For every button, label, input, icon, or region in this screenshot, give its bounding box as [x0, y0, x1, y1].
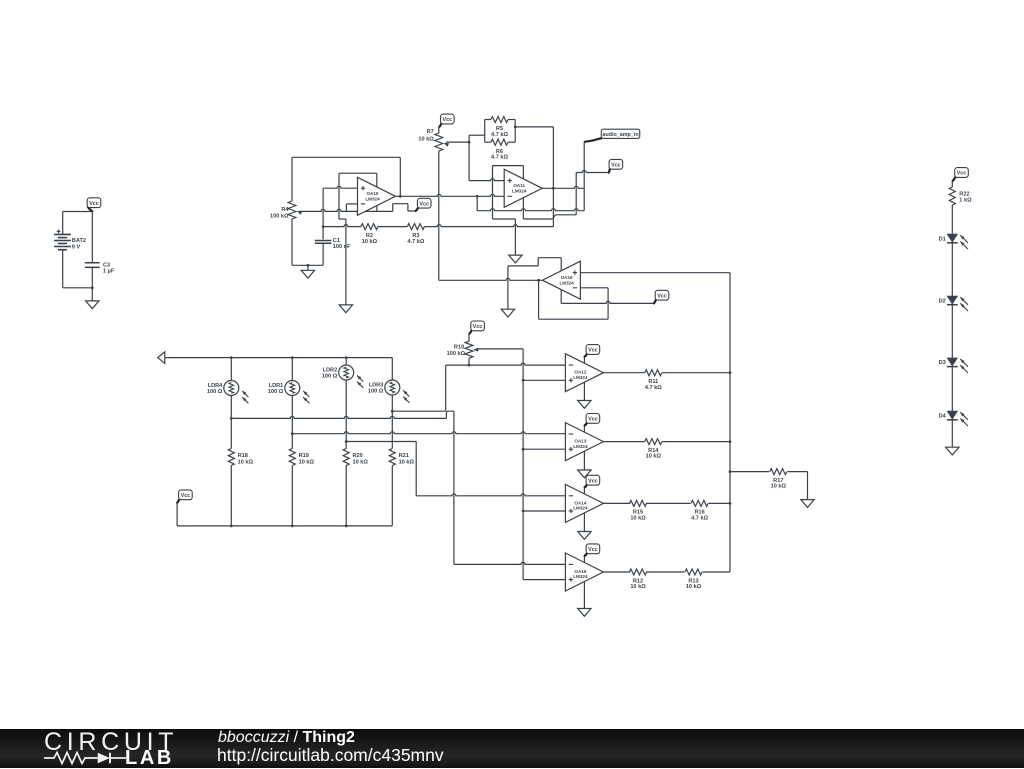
wire: wiper to R5/R6 left: [469, 134, 485, 136]
op-amp OA10 LM324: [358, 177, 396, 215]
node: LDR1 tap: [291, 432, 294, 435]
svg-text:BAT2: BAT2: [72, 238, 86, 244]
wire: V- lane to ground: [507, 266, 509, 309]
svg-text:D2: D2: [939, 298, 946, 304]
pin: OA14 V+ stub: [583, 487, 585, 494]
node: battery ground junction: [91, 286, 94, 289]
wire: R10 top lead: [468, 334, 470, 342]
svg-text:Vcc: Vcc: [181, 493, 191, 499]
wire: OA10 -in: [346, 204, 357, 212]
label OA14: [573, 500, 588, 510]
Vcc power label (OA10): [416, 198, 431, 211]
wire: OA10 +in: [323, 186, 357, 188]
ground (LED chain): [946, 447, 959, 455]
wire: R19 bottom lead: [291, 466, 293, 526]
wire: Vcc branch down to C3: [91, 212, 93, 263]
wire: R7 wiper: [446, 141, 469, 143]
wire: threshold lane: [522, 349, 524, 580]
wire: R2 to R3: [378, 226, 408, 228]
svg-text:Vcc: Vcc: [588, 478, 598, 484]
label LDR4: [207, 383, 223, 395]
wire: R17 to ground: [787, 472, 807, 500]
svg-text:10 kΩ: 10 kΩ: [630, 516, 646, 522]
wire: LDR2 bottom lead: [345, 380, 347, 442]
svg-text:100 Ω: 100 Ω: [207, 389, 223, 395]
svg-text:LM324: LM324: [573, 506, 588, 511]
label R19: [299, 453, 315, 465]
wire: OA16 -in: [580, 287, 608, 289]
svg-text:LM324: LM324: [512, 188, 527, 193]
wire: R7 top lead: [438, 127, 440, 133]
svg-text:R20: R20: [353, 453, 363, 459]
wire: LDR top rail: [165, 357, 392, 359]
wire: R14 to bus: [662, 441, 730, 443]
wire: R4 top lead: [291, 157, 293, 201]
label R18: [238, 453, 254, 465]
label OA15: [573, 569, 588, 579]
resistor R22: [949, 187, 955, 205]
wire: LDR2 row: [346, 441, 416, 443]
node: R19 rail tap: [291, 525, 294, 528]
ground (OA13): [578, 470, 591, 478]
label R7: [418, 129, 434, 143]
node: LDR3 tap: [391, 410, 394, 413]
label R14: [646, 448, 662, 460]
op-amp OA14 LM324: [565, 484, 603, 522]
wire: OA16 V- route: [508, 258, 561, 266]
wire: OA12 +in: [523, 379, 565, 381]
wire: D1 to D2: [951, 243, 953, 296]
wire: D4 to ground: [951, 420, 953, 447]
wire: LDR4 to R18: [230, 418, 232, 448]
svg-text:100 kΩ: 100 kΩ: [270, 213, 289, 219]
net flag arrow: [158, 352, 165, 364]
node: feedback junction: [514, 126, 517, 129]
svg-text:Vcc: Vcc: [443, 117, 453, 123]
node: R18 rail tap: [230, 525, 233, 528]
wire: Vcc drop: [176, 503, 178, 526]
svg-text:100 kΩ: 100 kΩ: [447, 351, 466, 357]
wire: R4/C1 bottom rail: [292, 264, 323, 266]
wire: OA16 V+ to Vcc: [561, 301, 654, 303]
node: LDR4 top tap: [230, 356, 233, 359]
node: wiper junction: [468, 141, 471, 144]
wire: LDR4 row: [231, 416, 446, 418]
LED D2: [947, 296, 968, 311]
wire: R18 bottom lead: [230, 466, 232, 526]
wire: R6 left lead: [485, 141, 491, 143]
svg-text:C1: C1: [333, 238, 340, 244]
wire: V- to ground: [493, 219, 516, 255]
svg-text:4.7 kΩ: 4.7 kΩ: [491, 132, 508, 138]
pin: OA16 V+ stub: [560, 290, 562, 304]
svg-text:LM324: LM324: [573, 375, 588, 380]
wire: R10 bottom row: [446, 364, 469, 366]
svg-text:R19: R19: [299, 453, 309, 459]
url: [217, 747, 444, 765]
label D3: [939, 360, 946, 366]
node: OA11 output junction: [552, 187, 555, 190]
wire: LDR3 row riser: [445, 365, 447, 411]
wire: OA11 V- lane: [492, 166, 494, 219]
svg-text:Vcc: Vcc: [588, 417, 598, 423]
node: LDR1 top tap: [291, 356, 294, 359]
wire: R16 to bus: [709, 502, 730, 504]
resistor R2: [361, 224, 378, 230]
wire: LDR4 row riser: [446, 411, 454, 418]
Vcc power label (LDR rail): [177, 490, 192, 503]
svg-text:D3: D3: [939, 360, 946, 366]
wire: OA16 feedback bottom: [539, 318, 609, 320]
node: R10 bottom junction: [468, 364, 471, 367]
pin: OA15 V- stub: [583, 581, 585, 608]
wire: OA10 +in lane: [322, 188, 324, 226]
node: C1 top junction: [322, 225, 325, 228]
wire: OA11 +in row: [469, 179, 504, 181]
svg-text:Vcc: Vcc: [611, 162, 621, 168]
wire: R20 bottom lead: [345, 466, 347, 526]
node: R11 bus tap: [729, 371, 732, 374]
wire: C1 top lead: [322, 227, 324, 240]
photoresistor LDR3: [385, 380, 410, 403]
label R3: [407, 233, 424, 245]
wire: R15 to R16: [646, 502, 691, 504]
node: R16 bus tap: [729, 502, 732, 505]
wire: OA15 output: [603, 571, 630, 573]
svg-text:R7: R7: [427, 129, 434, 135]
wire: output lane upper: [552, 127, 554, 188]
svg-text:Vcc: Vcc: [957, 171, 967, 177]
op-amp OA11 LM324: [504, 169, 542, 207]
svg-text:Vcc: Vcc: [657, 293, 667, 299]
LED D3: [947, 358, 968, 373]
pin: OA10 V- stub: [376, 173, 378, 187]
wire: OA11 V- top link: [493, 165, 524, 167]
resistor R18: [228, 449, 234, 466]
wire: V+ to Vcc: [576, 171, 609, 173]
svg-text:4.7 kΩ: 4.7 kΩ: [407, 239, 424, 245]
wire: LDR3 to R21: [391, 411, 393, 448]
svg-text:LM324: LM324: [365, 196, 380, 201]
svg-text:10 kΩ: 10 kΩ: [238, 459, 254, 465]
label R13: [686, 578, 702, 590]
wire: R5/R6 right bar: [514, 120, 516, 143]
wire: V+ lane up: [575, 173, 577, 215]
Vcc power label (R7): [439, 114, 454, 127]
svg-text:1 µF: 1 µF: [103, 269, 115, 275]
resistor R6: [491, 139, 508, 145]
label R21: [399, 453, 415, 465]
Vcc power label (LED chain): [953, 168, 969, 181]
ground (OA10 V-): [339, 305, 352, 313]
svg-text:4.7 kΩ: 4.7 kΩ: [645, 385, 662, 391]
svg-text:10 kΩ: 10 kΩ: [399, 459, 415, 465]
label LDR2: [322, 368, 338, 380]
wire: feedback top rail: [292, 156, 400, 158]
wire: R5 right lead: [508, 119, 515, 121]
wire: OA11 V+ route: [523, 215, 576, 219]
svg-text:100 Ω: 100 Ω: [268, 389, 284, 395]
label LDR1: [268, 383, 284, 395]
node: lane to OA13 +in: [522, 448, 525, 451]
svg-text:10 kΩ: 10 kΩ: [299, 459, 315, 465]
wire: wiper lane: [468, 135, 470, 180]
svg-text:R18: R18: [238, 453, 248, 459]
svg-text:4.7 kΩ: 4.7 kΩ: [691, 516, 708, 522]
resistor R3: [407, 224, 424, 230]
label R5: [491, 126, 508, 138]
svg-text:100 Ω: 100 Ω: [368, 389, 384, 395]
wire: LDR3 top lead: [391, 358, 393, 380]
wire: OA16 output row: [439, 278, 542, 280]
wire: battery positive lead: [62, 212, 64, 235]
logo word CIRCUIT: [44, 730, 178, 755]
label R22: [959, 191, 972, 203]
wire: LDR4 top lead: [230, 358, 232, 381]
wire: lane to ground: [345, 219, 347, 305]
label R20: [353, 453, 369, 465]
wire: LDR1 row to OA13 -in: [292, 432, 565, 434]
op-amp OA12 LM324: [565, 354, 603, 392]
wire: OA12 output: [603, 372, 644, 374]
wire: D3 to D4: [951, 367, 953, 412]
svg-text:Vcc: Vcc: [588, 547, 598, 553]
resistor R11: [645, 370, 662, 376]
svg-text:100 Ω: 100 Ω: [322, 374, 338, 380]
label OA12: [573, 370, 588, 380]
svg-text:10 kΩ: 10 kΩ: [362, 239, 378, 245]
LED D4: [947, 411, 968, 426]
svg-text:1 kΩ: 1 kΩ: [959, 198, 972, 204]
wire: R6 right lead: [508, 141, 515, 143]
wire: LDR2 lane down: [415, 442, 417, 496]
svg-text:audio_amp_in: audio_amp_in: [602, 132, 638, 138]
wire: LDR4 lane down: [453, 411, 455, 564]
wire: LDR3 bottom lead: [391, 395, 393, 411]
label BAT2: [72, 238, 86, 250]
pin: OA16 V- stub: [560, 258, 562, 271]
wire: C1 bottom lead: [322, 243, 324, 265]
net label audio_amp_in: [585, 129, 640, 142]
node: OA10 output junction: [399, 195, 402, 198]
wire: output feedback lane: [399, 157, 401, 196]
wire: R3 to OA11 output lane: [424, 225, 553, 227]
potentiometer R7: [435, 133, 449, 151]
Vcc power label (OA11): [609, 159, 623, 172]
wire: bus to R17: [730, 471, 769, 473]
ground (OA11 V-): [509, 255, 522, 263]
LED D1: [947, 234, 968, 249]
potentiometer R4: [288, 201, 302, 219]
wire: OA13 output: [603, 441, 644, 443]
pin: OA12 V+ stub: [583, 357, 585, 364]
label D1: [939, 236, 946, 242]
label R12: [630, 578, 646, 590]
resistor R16: [691, 500, 708, 506]
pin: OA11 V+ stub: [522, 198, 524, 219]
label OA10: [365, 191, 380, 201]
wire: D2 to D3: [951, 305, 953, 358]
resistor R14: [645, 439, 662, 445]
wire: OA11 output: [542, 186, 584, 188]
op-amp OA15 LM324: [565, 553, 603, 591]
wire: OA16 +in to bus: [580, 272, 730, 274]
pin: OA15 V+ stub: [583, 556, 585, 563]
wire: OA10 V- lane: [339, 173, 346, 219]
ground (OA14): [578, 532, 591, 540]
wire: OA10 V- top link: [339, 172, 377, 174]
svg-text:R22: R22: [959, 191, 969, 197]
pin: OA13 V+ stub: [583, 425, 585, 432]
wire: C3 to ground node: [91, 267, 93, 301]
resistor R19: [289, 449, 295, 466]
svg-text:Vcc: Vcc: [473, 324, 483, 330]
wire: battery bottom: [63, 287, 93, 289]
label R6: [491, 149, 508, 161]
wire: LDR1 top lead: [291, 358, 293, 381]
node: R14 bus tap: [729, 440, 732, 443]
wire: OA15 +in: [523, 579, 565, 581]
resistor R15: [630, 500, 647, 506]
photoresistor LDR4: [224, 381, 249, 404]
label OA16: [559, 275, 574, 285]
author / title: [218, 730, 355, 746]
wire: staircase to Vcc: [393, 204, 416, 212]
ground (OA15): [578, 609, 591, 617]
svg-text:10 kΩ: 10 kΩ: [686, 584, 702, 590]
label R4: [270, 207, 289, 220]
wire: -in bus row: [477, 209, 584, 211]
op-amp OA13 LM324: [565, 423, 603, 461]
svg-text:R21: R21: [399, 453, 409, 459]
label D4: [939, 413, 947, 419]
node: R17 bus tap: [729, 470, 732, 473]
label LDR3: [368, 383, 384, 395]
svg-text:LM324: LM324: [573, 574, 588, 579]
label R10: [447, 345, 466, 358]
svg-text:D4: D4: [939, 413, 947, 419]
node: bottom rail junction: [307, 264, 310, 267]
pin: OA10 V+ stub: [376, 206, 378, 212]
Vcc power label (OA15): [585, 544, 600, 556]
node: R20 rail tap: [345, 525, 348, 528]
wire: LDR2 top lead: [345, 358, 347, 365]
wire: R13 to bus: [703, 571, 731, 573]
Vcc power label (OA16): [654, 290, 669, 303]
node: -in junction: [476, 195, 479, 198]
wire: R10 bottom lead: [468, 358, 470, 365]
wire: R7 bottom lane to OA16: [438, 151, 440, 280]
wire: LDR2 to R20: [345, 442, 347, 449]
node: LDR2 tap: [345, 440, 348, 443]
wire: audio lane: [583, 142, 585, 211]
wire: -in drop: [476, 196, 478, 210]
wire: feedback to output lane: [515, 126, 553, 128]
resistor R12: [630, 569, 647, 575]
wire: output summing bus: [729, 273, 731, 572]
svg-text:Vcc: Vcc: [419, 201, 429, 207]
battery BAT2: [54, 230, 71, 250]
op-amp OA16 LM324: [542, 261, 580, 299]
wire: R10 wiper: [477, 348, 524, 350]
svg-text:9 V: 9 V: [72, 244, 81, 250]
Vcc power label (OA12): [585, 345, 600, 357]
pin: OA11 V- stub: [522, 166, 524, 179]
wire: R11 to bus: [662, 372, 730, 374]
label R16: [691, 510, 708, 522]
svg-text:10 kΩ: 10 kΩ: [353, 459, 369, 465]
node: lane to OA14 +in: [522, 510, 525, 513]
photoresistor LDR2: [339, 365, 364, 388]
photoresistor LDR1: [285, 381, 310, 404]
pin: OA14 V- stub: [583, 513, 585, 532]
wire: R4 wiper row to OA10 circuits: [299, 209, 393, 211]
resistor R21: [389, 449, 395, 466]
wire: R5/R6 left bar: [484, 120, 486, 143]
node: LDR4 tap: [230, 417, 233, 420]
wire: LDR1 to R19: [291, 434, 293, 449]
Vcc power label (R10): [469, 321, 484, 334]
wire: OA16 feedback down: [538, 280, 540, 319]
capacitor C3: [85, 263, 100, 268]
svg-text:D1: D1: [939, 236, 946, 242]
pin: OA12 V- stub: [583, 382, 585, 400]
pin: OA13 V- stub: [583, 451, 585, 470]
ground (OA16 V-): [501, 309, 514, 317]
wire: OA11 output down lane: [552, 188, 554, 226]
wire: R22 to D1: [951, 205, 953, 234]
wire: R4 bottom lead: [291, 219, 293, 265]
svg-text:LM324: LM324: [573, 444, 588, 449]
svg-text:Vcc: Vcc: [588, 348, 598, 354]
wire: OA13 +in: [523, 448, 565, 450]
node: lane to OA12 +in: [522, 379, 525, 382]
svg-text:C3: C3: [103, 262, 110, 268]
svg-text:Vcc: Vcc: [89, 201, 99, 207]
ground (OA12): [578, 401, 591, 409]
label R15: [630, 510, 646, 522]
wire: LDR bottom rail: [177, 525, 392, 527]
label OA11: [512, 183, 527, 193]
label R11: [645, 379, 662, 391]
svg-text:100 nF: 100 nF: [333, 244, 351, 250]
label R17: [771, 478, 787, 490]
svg-text:R10: R10: [454, 345, 464, 351]
Vcc power label (OA13): [585, 414, 600, 426]
label OA13: [573, 439, 588, 449]
svg-text:10 kΩ: 10 kΩ: [630, 584, 646, 590]
label C1: [333, 238, 351, 250]
wire: ground stub: [307, 265, 309, 270]
wire: LDR3 row: [392, 410, 445, 412]
svg-text:LM324: LM324: [559, 280, 574, 285]
wire: R12 to R13: [646, 571, 685, 573]
svg-text:10 kΩ: 10 kΩ: [418, 136, 434, 142]
Vcc power label (OA14): [585, 475, 600, 487]
wire: battery negative lead: [62, 250, 64, 288]
wire: lane to OA14 -in: [416, 494, 565, 496]
wire: R5 left lead: [485, 119, 491, 121]
wire: lane to OA15 -in: [454, 562, 566, 564]
potentiometer R10: [465, 341, 478, 358]
logo resistor-diode glyph: [40, 749, 140, 767]
ground (battery): [86, 301, 99, 309]
resistor R17: [770, 469, 787, 475]
ground (R17): [801, 500, 814, 508]
resistor R20: [343, 449, 349, 466]
node: LDR2 top tap: [345, 356, 348, 359]
wire: LDR1 bottom lead: [291, 396, 293, 434]
